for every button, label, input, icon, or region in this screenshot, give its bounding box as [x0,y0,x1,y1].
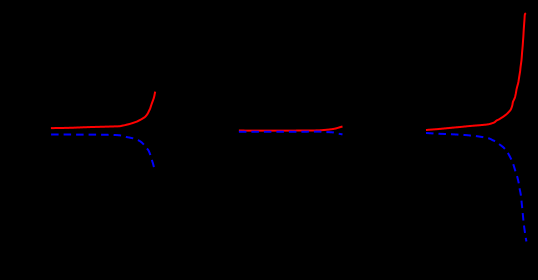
red solid curve, right branch [426,13,526,130]
red solid curve, middle branch [239,127,343,131]
red solid curve, left branch [51,92,155,129]
blue dashed curve, left branch [51,135,154,169]
blue dashed curve, right branch [426,133,526,241]
blue dashed curve, middle branch [239,132,343,135]
